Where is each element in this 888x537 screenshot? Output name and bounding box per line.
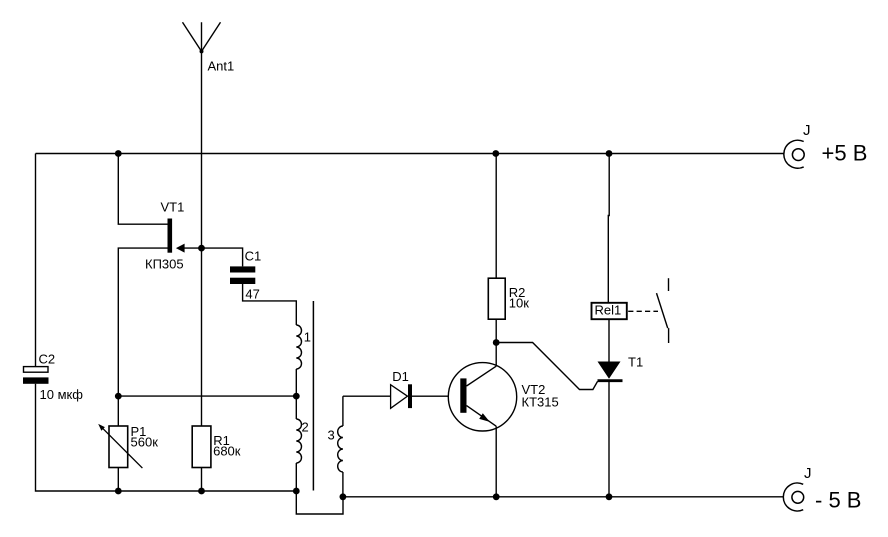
svg-text:47: 47 (245, 286, 259, 301)
transformer core (312, 301, 314, 491)
potentiometer P1 (98, 396, 142, 491)
inductor winding 3 (338, 396, 343, 497)
wire mid rail (118, 395, 296, 397)
svg-text:10к: 10к (509, 296, 529, 311)
svg-text:J: J (803, 122, 811, 139)
node winding3 bottom (340, 493, 347, 500)
svg-text:Rel1: Rel1 (595, 303, 622, 318)
wire bottom -5V rail (343, 496, 783, 498)
node gate junction (198, 245, 205, 252)
node bottom rail R1 (198, 488, 205, 495)
svg-text:C1: C1 (245, 248, 262, 263)
wire left column to C2 (35, 154, 37, 367)
wire winding1 bottom to mid node (295, 369, 297, 396)
node top rail T1 (606, 150, 613, 157)
svg-text:J: J (804, 465, 812, 482)
svg-text:КП305: КП305 (145, 256, 184, 271)
wire relay dashed link (628, 310, 658, 312)
node bottom rail P1 (115, 488, 122, 495)
capacitor C2 (23, 367, 49, 384)
svg-text:680к: 680к (213, 444, 241, 459)
connector J +5V (784, 140, 804, 168)
resistor R1 (192, 426, 211, 491)
svg-text:+5 В: +5 В (822, 141, 868, 166)
inductor winding 2 (296, 396, 301, 491)
svg-text:КТ315: КТ315 (522, 394, 559, 409)
svg-text:560к: 560к (131, 434, 159, 449)
node bottom rail winding2 (293, 488, 300, 495)
wire top +5V rail (36, 153, 784, 155)
thyristor T1 (598, 154, 623, 497)
wire VT1 source to mid rail (118, 248, 167, 396)
node top rail / VT1 branch (115, 150, 122, 157)
diode D1 (391, 384, 412, 408)
node emitter bottom (493, 493, 500, 500)
svg-text:VT1: VT1 (161, 199, 185, 214)
wire gate of thyristor (496, 343, 597, 390)
svg-text:- 5 В: - 5 В (815, 488, 861, 513)
wire winding3 to diode D1 (343, 395, 391, 397)
relay Rel1 box (592, 303, 627, 319)
svg-text:D1: D1 (392, 369, 409, 384)
svg-text:C2: C2 (39, 351, 56, 366)
svg-text:10 мкф: 10 мкф (40, 387, 84, 402)
svg-text:Ant1: Ant1 (208, 59, 235, 74)
wire D1 to VT2 base (412, 395, 448, 397)
wire C1 to winding 1 (243, 284, 297, 325)
resistor R2 (488, 154, 505, 343)
svg-text:T1: T1 (628, 354, 643, 369)
node top rail R2 (492, 150, 499, 157)
transistor VT2 (448, 363, 516, 431)
relay switch contact (657, 278, 669, 343)
wire bottom loop (296, 491, 343, 514)
node mid rail left (115, 393, 122, 400)
node mid rail right (293, 393, 300, 400)
wire antenna down to gate node and R1 (201, 154, 203, 427)
capacitor C1 (230, 266, 255, 284)
wire VT1 drain from top rail (118, 154, 167, 225)
wire VT2 collector up (495, 343, 497, 367)
wire VT2 emitter down (495, 426, 497, 496)
svg-text:2: 2 (302, 419, 309, 434)
wire gate node to C1 (202, 248, 243, 266)
svg-text:3: 3 (328, 427, 335, 442)
transistor VT1 gate arrow (176, 244, 202, 253)
inductor winding 1 (296, 325, 301, 369)
node T1 bottom (606, 493, 613, 500)
antenna Ant1 (183, 22, 221, 153)
wire C2 bottom to bottom rail (36, 384, 297, 491)
node R2 / collector junction (493, 339, 500, 346)
svg-text:1: 1 (304, 329, 311, 344)
transistor VT1 channel bar (168, 219, 173, 253)
connector J -5V (783, 483, 803, 511)
